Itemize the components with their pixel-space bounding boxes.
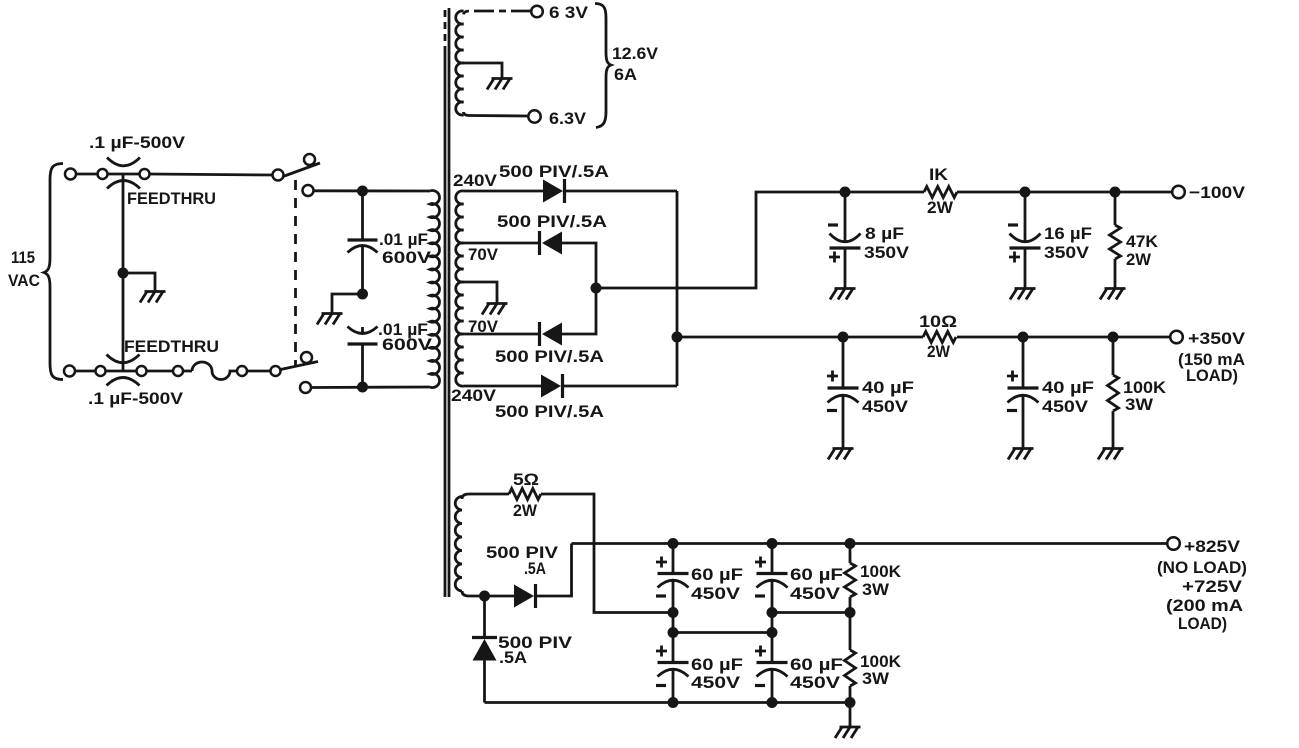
svg-text:VAC: VAC (8, 271, 40, 290)
svg-text:10Ω: 10Ω (919, 312, 957, 331)
node junction (bottom cap4) (767, 697, 778, 708)
svg-text:240V: 240V (451, 386, 497, 405)
svg-text:450V: 450V (862, 397, 909, 416)
capacitor C11 60uF 450V (bottom left) (656, 633, 689, 703)
svg-text:12.6V: 12.6V (612, 44, 659, 63)
svg-text:FEEDTHRU: FEEDTHRU (124, 337, 219, 356)
diode D5 500 PIV .5A (series) (514, 584, 536, 608)
ground (47K) (1100, 289, 1126, 300)
terminal 6.3V bottom (528, 110, 540, 122)
diode D6 500 PIV .5A (shunt) (472, 596, 497, 703)
svg-text:450V: 450V (691, 584, 741, 603)
svg-text:100K: 100K (860, 562, 902, 581)
ground (40uF second) (1008, 449, 1034, 460)
wire switch to primary top (314, 189, 431, 192)
svg-text:350V: 350V (864, 243, 910, 262)
node junction (feedthru center) (118, 268, 129, 279)
svg-text:.5A: .5A (524, 559, 546, 578)
node junction (mid2 cap3) (668, 627, 679, 638)
svg-text:3W: 3W (862, 669, 890, 688)
wire D3 to junction (561, 288, 596, 334)
node junction (40uF second) (1018, 332, 1029, 343)
svg-text:500 PIV/.5A: 500 PIV/.5A (495, 402, 604, 421)
ground (6.3V center tap) (487, 79, 513, 90)
node junction (16uF) (1020, 187, 1031, 198)
resistor R7 5ohm 2W (509, 489, 541, 500)
svg-text:240V: 240V (453, 171, 498, 190)
switch gang link (dashed) (294, 180, 297, 366)
svg-text:500 PIV/.5A: 500 PIV/.5A (495, 347, 604, 366)
node junction (825 rail 100K) (845, 538, 856, 549)
svg-text:115: 115 (11, 248, 35, 267)
svg-text:FEEDTHRU: FEEDTHRU (127, 189, 216, 208)
svg-text:.1 µF-500V: .1 µF-500V (88, 389, 184, 408)
wire D4 to bus (561, 385, 677, 388)
wire 5ohm to doubler mid node (541, 494, 673, 613)
wire 240V top tap to diode (464, 190, 544, 193)
brace 12.6V (595, 4, 611, 128)
capacitor C9 60uF 450V (top left) (656, 544, 689, 613)
ground (16uF) (1010, 289, 1036, 300)
ground (40uF first) (828, 449, 854, 460)
AC line top row terminals (65, 169, 76, 180)
wire D1 to bus (563, 190, 677, 193)
capacitor .01uF 600V upper (348, 191, 378, 294)
ground (.01uF center) (317, 314, 343, 325)
switch S2 (bottom pole) (281, 352, 319, 393)
svg-text:500 PIV: 500 PIV (486, 543, 559, 562)
svg-text:2W: 2W (1126, 250, 1152, 269)
node junction (mid2 cap4) (767, 627, 778, 638)
svg-text:3W: 3W (862, 580, 890, 599)
diode D3 500 PIV/.5A (70V lower) (540, 322, 563, 346)
wire through feedthru (108, 173, 140, 176)
node junction (825 rail cap1) (668, 538, 679, 549)
transformer core (445, 8, 449, 597)
diode D4 500 PIV/.5A (240V bottom) (541, 374, 563, 398)
svg-text:60 µF: 60 µF (790, 565, 843, 584)
node junction (mid cap2) (767, 607, 778, 618)
svg-text:2W: 2W (513, 501, 538, 520)
svg-text:6A: 6A (614, 65, 637, 84)
svg-text:450V: 450V (790, 673, 841, 692)
svg-text:450V: 450V (1042, 397, 1089, 416)
capacitor C8 40uF 450V (1007, 337, 1039, 449)
node junction (100K bleeder) (1108, 332, 1119, 343)
wire through feedthru (106, 370, 137, 373)
transformer main secondary winding (456, 191, 464, 386)
wire to diode D5 (485, 595, 515, 598)
transformer primary winding (430, 191, 440, 388)
svg-text:.01 µF: .01 µF (379, 230, 428, 249)
svg-text:8 µF: 8 µF (865, 224, 904, 243)
wire 6.3V center tap (464, 63, 503, 79)
svg-text:350V: 350V (1044, 243, 1090, 262)
wire to switch (150, 174, 273, 175)
capacitor C12 60uF 450V (bottom right) (755, 633, 788, 703)
wire bottom rail to ground (849, 703, 852, 728)
svg-text:60 µF: 60 µF (691, 565, 743, 584)
node junction (40uF first) (838, 332, 849, 343)
wire +350V rail (677, 336, 923, 339)
terminal +350V (1170, 331, 1183, 344)
wire feedthru stem vertical (122, 174, 125, 371)
svg-text:−100V: −100V (1189, 183, 1246, 202)
svg-text:.1 µF-500V: .1 µF-500V (89, 133, 186, 152)
node junction (825 rail cap2) (767, 538, 778, 549)
ground (doubler bottom) (835, 727, 861, 738)
capacitor .01uF 600V lower (348, 327, 378, 388)
svg-text:3W: 3W (1125, 395, 1154, 414)
svg-text:2W: 2W (927, 198, 954, 217)
wire (147, 370, 174, 373)
svg-text:500 PIV/.5A: 500 PIV/.5A (499, 162, 609, 181)
resistor R2 47K 2W (1110, 192, 1121, 289)
feedthru capacitor bottom (107, 355, 140, 386)
svg-text:60 µF: 60 µF (691, 655, 743, 674)
wire to ground (123, 273, 155, 292)
wire doubler bottom rail (485, 701, 851, 704)
terminal -100V (1172, 186, 1185, 199)
wire (247, 370, 271, 373)
wire secondary center tap to ground (464, 282, 498, 304)
svg-text:LOAD): LOAD) (1178, 614, 1227, 633)
resistor R5 100K 3W (top) (845, 544, 856, 613)
wire (183, 370, 192, 373)
diode D1 500 PIV/.5A (240V top) (543, 179, 565, 203)
svg-text:40 µF: 40 µF (862, 378, 914, 397)
svg-text:2W: 2W (927, 342, 951, 361)
node junction (357, 382, 368, 393)
svg-text:40 µF: 40 µF (1042, 378, 1094, 397)
wire positive bus vertical (676, 191, 679, 386)
svg-text:450V: 450V (691, 673, 741, 692)
wire switch to primary bottom (311, 386, 430, 389)
node junction (bottom 100K) (845, 697, 856, 708)
wire doubler mid rail lower link (673, 631, 772, 634)
wire 70V upper tap to diode (464, 242, 542, 245)
capacitor C5 8uF 350V (828, 192, 861, 289)
svg-text:.5A: .5A (499, 648, 527, 667)
wire +825V rail (572, 542, 1168, 545)
wire (76, 173, 98, 176)
node junction (47K) (1110, 187, 1121, 198)
svg-text:60 µF: 60 µF (790, 655, 843, 674)
wire D2 to junction (561, 243, 596, 288)
node junction (mid cap1) (668, 607, 679, 618)
transformer winding 6.3V (top secondary) (456, 11, 531, 116)
AC line bottom row terminals (64, 366, 75, 377)
node junction (mid 100K) (845, 607, 856, 618)
resistor R4 100K 3W (1108, 337, 1119, 449)
wire to ground (332, 294, 363, 313)
terminal +825V (1167, 537, 1180, 550)
node junction (bottom cap3) (668, 697, 679, 708)
resistor R1 1K 2W (924, 187, 957, 198)
svg-text:+825V: +825V (1184, 537, 1241, 556)
svg-text:5Ω: 5Ω (513, 470, 539, 489)
wire 70V lower tap to diode (464, 333, 542, 336)
ground (100K bleeder) (1098, 449, 1124, 460)
wire D5 to +825V rail (534, 544, 572, 597)
brace 115 VAC (44, 164, 63, 380)
diode D2 500 PIV/.5A (70V upper) (540, 231, 563, 255)
ground (secondary center tap) (482, 304, 508, 315)
svg-text:(200 mA: (200 mA (1166, 596, 1243, 615)
svg-text:LOAD): LOAD) (1186, 366, 1238, 385)
svg-text:16 µF: 16 µF (1044, 224, 1092, 243)
wire mid links vertical (673, 613, 850, 633)
svg-text:+725V: +725V (1182, 577, 1243, 596)
svg-text:500 PIV/.5A: 500 PIV/.5A (497, 212, 607, 231)
svg-text:600V: 600V (382, 248, 432, 267)
transformer HV winding (doubler) (455, 494, 509, 596)
resistor R6 100K 3W (bottom) (845, 613, 856, 703)
terminal 6.3V top (531, 6, 543, 18)
node junction (negative rectifier output) (591, 283, 602, 294)
wire junction to -100V rail riser (596, 192, 845, 288)
svg-text:6.3V: 6.3V (549, 109, 587, 128)
capacitor C7 40uF 450V (827, 337, 859, 449)
svg-text:600V: 600V (382, 335, 433, 354)
wire (75, 370, 96, 373)
wire doubler mid rail right part (772, 611, 850, 614)
ground (8uF) (830, 289, 856, 300)
svg-text:70V: 70V (468, 245, 499, 264)
node junction (between .01uF caps) (357, 289, 368, 300)
node junction (+350V rail start) (672, 332, 683, 343)
switch S1 (top pole) (273, 154, 321, 196)
node junction (HV winding bottom) (479, 591, 490, 602)
svg-text:6 3V: 6 3V (549, 3, 589, 22)
wire -100V rail (845, 191, 924, 194)
feedthru capacitor top (107, 158, 140, 189)
svg-text:IK: IK (929, 165, 949, 184)
capacitor C6 16uF 350V (1008, 192, 1041, 289)
fuse (192, 362, 237, 380)
svg-text:47K: 47K (1126, 232, 1159, 251)
capacitor C10 60uF 450V (top right) (755, 544, 788, 613)
svg-text:(NO LOAD): (NO LOAD) (1157, 558, 1247, 577)
ground (AC center) (140, 292, 166, 303)
node junction (357, 186, 368, 197)
node junction (8uF) (840, 187, 851, 198)
wire 240V bottom tap to diode (464, 385, 542, 388)
svg-text:450V: 450V (790, 584, 841, 603)
resistor R3 10ohm 2W (923, 332, 956, 343)
svg-text:+350V: +350V (1188, 329, 1246, 348)
